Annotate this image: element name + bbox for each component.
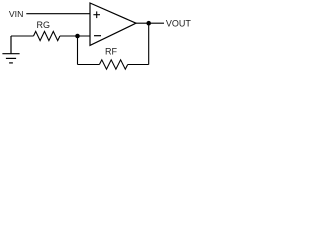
wire op-amp output: [136, 22, 164, 24]
wire RF to right vertical: [128, 64, 149, 66]
op-amp U1: [90, 3, 136, 45]
wire feedback up to output node: [148, 23, 150, 64]
wire feedback down from inverting node: [77, 36, 79, 65]
node junction at output: [146, 21, 151, 26]
wire bottom left to RF: [78, 64, 100, 66]
svg-text:RF: RF: [105, 47, 117, 57]
wire RG to op-amp inverting input: [60, 35, 90, 37]
resistor RG: [34, 20, 60, 40]
node junction at inverting input: [75, 34, 80, 39]
svg-text:RG: RG: [37, 20, 51, 30]
ground: [2, 36, 19, 63]
svg-text:VIN: VIN: [9, 9, 23, 19]
svg-text:VOUT: VOUT: [166, 18, 191, 28]
wire ground to RG: [11, 35, 34, 37]
wire VIN to op-amp noninverting input: [26, 13, 90, 15]
resistor RF: [99, 47, 127, 69]
